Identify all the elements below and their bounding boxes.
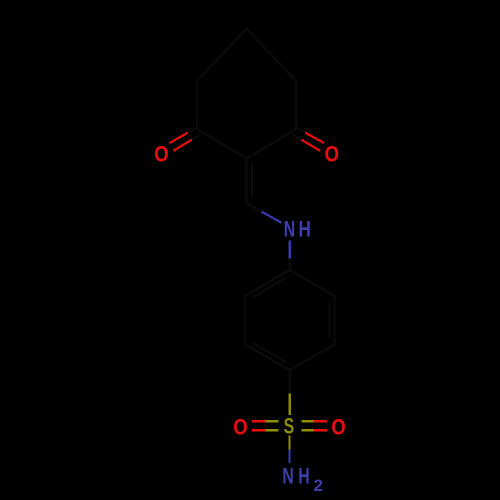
svg-text:O: O xyxy=(331,416,345,440)
svg-text:N: N xyxy=(284,218,295,242)
svg-text:N: N xyxy=(282,465,293,489)
svg-text:O: O xyxy=(233,416,247,440)
svg-text:O: O xyxy=(154,143,168,167)
svg-text:S: S xyxy=(284,415,295,439)
svg-text:2: 2 xyxy=(314,476,323,495)
svg-text:O: O xyxy=(325,143,339,167)
svg-text:H: H xyxy=(298,465,309,489)
svg-text:H: H xyxy=(299,217,311,242)
